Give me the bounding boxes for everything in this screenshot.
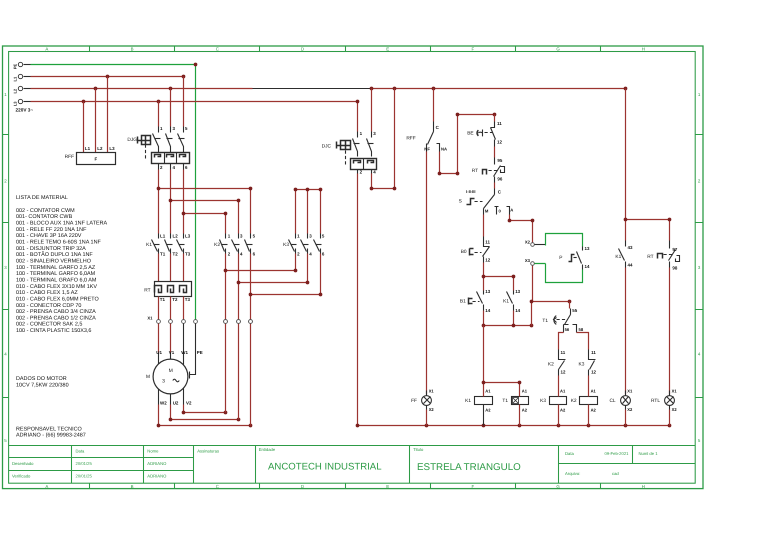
svg-text:001 - RELE FF 220 1NA 1NF: 001 - RELE FF 220 1NA 1NF [16,227,87,233]
svg-text:001 - BOTÃO DUPLO 1NA 1NF: 001 - BOTÃO DUPLO 1NA 1NF [16,251,93,258]
pushbutton B0 [470,237,491,263]
wire delta link V2-K2.2 [184,412,226,414]
svg-text:Nome: Nome [147,448,159,453]
svg-text:B: B [131,484,134,489]
svg-text:X1: X1 [672,389,678,394]
contact K1 43-44 [619,241,633,268]
wire K1 feed pole3 [183,170,185,234]
wire motor lead U2 [170,394,172,405]
svg-text:001- CONTATOR CWB: 001- CONTATOR CWB [16,214,73,220]
svg-text:K2: K2 [214,242,220,248]
coil K1 [465,389,492,426]
svg-text:ADRIANO: ADRIANO [147,461,167,466]
svg-text:B1: B1 [460,299,466,305]
svg-text:ESTRELA TRIANGULO: ESTRELA TRIANGULO [417,462,521,473]
title block [9,446,696,484]
node bottom rail nodes [356,424,672,428]
wire RT-X1 b [170,297,172,320]
node star link nodes [224,269,323,297]
wire K1-RT b [170,254,172,282]
terminal circles on K2 drops [224,320,253,324]
svg-text:RT: RT [472,168,478,174]
wire DJC pole2 down [357,174,359,426]
svg-text:X1: X1 [147,315,153,320]
svg-text:X2: X2 [672,407,678,412]
node coil feed nodes [482,381,522,385]
svg-text:43: 43 [628,245,633,250]
svg-text:G: G [556,46,560,51]
svg-text:F: F [95,156,98,161]
svg-text:ADRIANO: ADRIANO [147,473,167,478]
svg-text:002 - CONECTOR SAK 2,5: 002 - CONECTOR SAK 2,5 [16,322,82,328]
svg-text:C: C [216,46,219,51]
svg-text:20/01/25: 20/01/25 [76,473,93,478]
svg-text:B: B [131,46,134,51]
svg-text:P: P [559,255,562,261]
wire K2 feed c [184,214,226,234]
svg-text:A1: A1 [522,389,528,394]
svg-text:L2: L2 [97,146,103,151]
wire B1/K1 output bus [484,311,532,326]
svg-text:M: M [485,208,489,213]
svg-text:cad: cad [612,471,619,476]
svg-text:T3: T3 [185,297,191,302]
wire motor leads U1 V1 red part [159,324,171,353]
svg-text:001 - BLOCO AUX 1NA 1NF LATERA: 001 - BLOCO AUX 1NA 1NF LATERA [16,220,108,226]
svg-text:V2: V2 [186,401,192,406]
svg-text:L1: L1 [85,146,91,151]
timer contact T1 55-56-58 [554,302,584,333]
wire K3 star bar [296,190,321,234]
svg-text:K2: K2 [548,361,554,367]
wire T1-58 chain [577,333,589,350]
wire K1-RT a [158,254,160,282]
svg-text:010 - CABO FLEX 1,5 AZ: 010 - CABO FLEX 1,5 AZ [16,290,78,296]
svg-text:K3: K3 [540,398,546,404]
svg-text:E: E [386,46,389,51]
contact K1 13-14 [507,289,521,313]
lamp CL [609,389,633,426]
svg-text:Data: Data [76,448,86,453]
svg-text:CL: CL [609,398,615,404]
wire star link b [239,254,308,283]
svg-text:D: D [301,484,304,489]
svg-text:ANCOTECH INDUSTRIAL: ANCOTECH INDUSTRIAL [268,462,382,473]
svg-text:010 - CABO FLEX 3X10 MM 1KV: 010 - CABO FLEX 3X10 MM 1KV [16,284,97,290]
svg-text:ADRIANO - (66) 99983-2487: ADRIANO - (66) 99983-2487 [16,433,86,439]
svg-text:T1: T1 [542,318,548,324]
svg-text:K1: K1 [503,299,509,305]
pressure switch P [569,246,590,270]
svg-text:T3: T3 [185,251,191,256]
wire motor lead W2 [158,389,160,405]
wire delta link W2-K2.6 [159,425,251,427]
svg-text:Data: Data [565,451,575,456]
wire K3 coil feed [558,376,560,391]
drawing frame [3,46,704,489]
svg-text:X2: X2 [525,240,531,245]
svg-text:L1: L1 [160,234,166,239]
svg-text:D: D [301,46,304,51]
svg-text:FF: FF [411,398,417,404]
wire delta link U2-K2.4 [171,419,239,421]
svg-text:010 - CABO FLEX 6,0MM PRETO: 010 - CABO FLEX 6,0MM PRETO [16,296,99,302]
svg-text:11: 11 [497,121,502,126]
wire B0 to B1 / K1 branch [484,263,514,291]
motor M [153,350,203,406]
contactor K3 poles [283,234,325,257]
svg-text:B0: B0 [461,249,467,255]
node L2 taps [94,87,628,91]
pushbutton B1 [469,289,491,313]
svg-text:001 - DISJUNTOR TRIP 32A: 001 - DISJUNTOR TRIP 32A [16,246,86,252]
svg-text:A2: A2 [485,408,491,413]
svg-text:12: 12 [485,257,490,262]
svg-text:55: 55 [572,308,577,313]
circuit breaker DJC [337,89,377,175]
svg-text:12: 12 [497,139,502,144]
svg-text:X2: X2 [429,407,435,412]
wire L2 rail red left [31,88,253,90]
svg-text:DJG: DJG [127,137,137,143]
svg-text:F: F [472,484,475,489]
svg-text:T2: T2 [172,297,178,302]
svg-text:13: 13 [515,289,520,294]
svg-text:L2: L2 [12,88,17,93]
lamp RTL [651,389,677,426]
relay contact RFF [424,89,447,152]
svg-text:L1: L1 [12,76,17,81]
wire K1 feed pole2 [170,170,172,234]
svg-text:98: 98 [672,266,677,271]
wire L2 rail black middle [253,88,371,90]
svg-text:002 - CONTATOR CWM: 002 - CONTATOR CWM [16,208,75,214]
svg-text:14: 14 [485,308,490,313]
svg-text:100 - TERMINAL GARFO 2,5 AZ: 100 - TERMINAL GARFO 2,5 AZ [16,265,96,271]
lamp FF [411,389,434,426]
wire RTL branch [626,220,670,241]
contact K3 11-12 [589,350,597,376]
svg-text:A1: A1 [485,389,491,394]
svg-text:12: 12 [561,370,566,375]
svg-text:BE: BE [467,131,473,137]
svg-text:002 - SINALEIRO VERMELHO: 002 - SINALEIRO VERMELHO [16,258,91,264]
overload relay RT [155,282,192,303]
svg-text:100 - TERMINAL GRAFO 6,0 AM: 100 - TERMINAL GRAFO 6,0 AM [16,277,97,283]
svg-text:002 - PRENSA CABO 3/4 CINZA: 002 - PRENSA CABO 3/4 CINZA [16,309,96,315]
node L3 taps [82,100,360,104]
circuit breaker DJG [138,77,190,170]
svg-text:X2: X2 [627,407,633,412]
wire K2 pole4 down [238,254,240,420]
wire RT-X1 c [183,297,185,320]
svg-text:K1: K1 [146,242,152,248]
svg-text:K3: K3 [579,361,585,367]
wire L1 rail [31,76,184,78]
wire X2 stub [535,244,546,246]
node delta link nodes [157,411,253,428]
svg-text:RT: RT [647,254,653,260]
node A-output nodes [508,219,535,223]
svg-text:96: 96 [497,177,502,182]
svg-text:W1: W1 [181,350,188,355]
svg-text:PE: PE [12,64,17,70]
contact K2 11-12 [559,350,566,376]
svg-text:K1: K1 [465,398,471,404]
wire star link c [251,254,321,295]
svg-text:W2: W2 [160,401,167,406]
contactor K2 poles [214,234,255,257]
svg-text:A2: A2 [560,408,566,413]
svg-text:11: 11 [591,350,596,355]
wire DJC pole4 link [372,89,395,189]
svg-text:A: A [510,208,513,213]
terminal X3 [525,258,534,265]
svg-text:A2: A2 [522,408,528,413]
wire RFF NA to BE rail [440,115,495,174]
svg-text:C: C [216,484,219,489]
node T1 feed nodes [530,300,572,304]
svg-text:10CV 7,5KW 220/380: 10CV 7,5KW 220/380 [16,383,69,389]
svg-text:220V 3~: 220V 3~ [16,108,34,113]
coil K3 [540,389,566,426]
wire X3 to T1 feed [532,266,570,326]
wire star link a [226,254,296,271]
svg-text:H: H [642,484,645,489]
node PE junction [194,63,198,67]
selector switch S [466,183,513,215]
terminal strip X1 [147,315,252,323]
svg-text:58: 58 [579,327,584,332]
svg-text:X1: X1 [627,389,633,394]
fuse block RFF [77,77,116,165]
node L1 taps [106,75,186,79]
svg-text:Assinaturas: Assinaturas [197,448,219,453]
wire K1-44 to CL [625,268,627,395]
svg-text:K3: K3 [283,242,289,248]
svg-text:DADOS DO MOTOR: DADOS DO MOTOR [16,376,67,382]
contactor K1 poles [146,234,191,257]
wire PE rail [31,65,196,320]
svg-text:H: H [642,46,645,51]
wire K1-RT c [183,254,185,282]
svg-text:V1: V1 [169,350,175,355]
wire CL branch [625,89,627,241]
overload contact RT 95-96 [483,147,505,183]
svg-text:RESPONSAVEL TECNICO: RESPONSAVEL TECNICO [16,426,82,432]
svg-text:100 - CINTA PLASTIC 150X3,6: 100 - CINTA PLASTIC 150X3,6 [16,328,91,334]
svg-text:RT: RT [144,287,150,293]
svg-text:Titulo: Titulo [413,447,424,452]
supply terminals PE L1 L2 L3 [12,62,30,106]
terminal X2 [525,240,534,247]
svg-text:97: 97 [672,247,677,252]
svg-text:X3: X3 [525,258,531,263]
svg-text:11: 11 [485,240,490,245]
svg-text:M: M [169,368,173,374]
wire RT-98 to RTL [669,268,671,395]
svg-text:A: A [45,46,48,51]
wire K2 feed b [171,201,239,234]
wire K2 pole2 down [225,254,227,413]
node DJC output nodes [370,187,397,191]
svg-text:PE: PE [197,350,203,355]
svg-text:14: 14 [585,264,590,269]
svg-text:T1: T1 [502,398,508,404]
svg-text:NA: NA [441,146,447,151]
svg-text:T2: T2 [173,251,179,256]
wire K2 feed a [159,189,251,234]
svg-text:95: 95 [497,158,502,163]
svg-text:001 - RELE TEMO 6-60S 1NA 1NF: 001 - RELE TEMO 6-60S 1NA 1NF [16,239,101,245]
svg-text:A: A [45,484,48,489]
wire RFF NF down to FF lamp [426,152,428,395]
svg-text:L3: L3 [12,101,17,106]
svg-text:14: 14 [515,308,520,313]
svg-text:003 - CONECTOR CDP 70: 003 - CONECTOR CDP 70 [16,303,81,309]
svg-text:Desenhado: Desenhado [12,461,34,466]
wire S A-output to X2 [510,215,533,243]
svg-text:Verificado: Verificado [12,473,31,478]
svg-text:K1: K1 [615,254,621,260]
svg-text:U2: U2 [173,401,179,406]
coil K2 [571,389,598,426]
svg-text:T1: T1 [160,297,166,302]
svg-text:L3: L3 [109,146,115,151]
node bus nodes [482,324,534,328]
wire RT-X1 a [158,297,160,320]
svg-text:09-Feb-2021: 09-Feb-2021 [605,451,630,456]
wire P-X3 green [535,264,583,283]
svg-text:100 - TERMINAL GARFO 6,0AM: 100 - TERMINAL GARFO 6,0AM [16,271,96,277]
svg-text:Entidade: Entidade [259,447,276,452]
node NA-BE nodes [438,113,497,176]
svg-text:L3: L3 [185,234,191,239]
svg-text:F: F [472,46,475,51]
wire X2-P green [546,234,583,247]
svg-text:I-II-III: I-II-III [466,189,475,194]
wire motor leads black parts [159,324,196,375]
svg-text:S: S [459,199,462,205]
wire L3 rail [31,102,358,132]
node right branch nodes [624,218,672,222]
svg-text:M: M [146,374,150,380]
wire K1/T1 coil feed [484,326,520,391]
svg-text:001 - CHAVE 3P 16A 220V: 001 - CHAVE 3P 16A 220V [16,233,82,239]
svg-text:X1: X1 [429,389,435,394]
overload contact RT 97-98 [658,241,680,271]
wire T1-56 chain [559,333,564,350]
motor PE ground mark [188,372,190,379]
svg-text:Arquivo:: Arquivo: [565,471,580,476]
svg-text:Numl de 1: Numl de 1 [639,451,659,456]
parts list text [16,195,108,439]
wire motor lead red tails [159,405,184,426]
svg-text:LISTA DE MATERIAL: LISTA DE MATERIAL [16,195,68,201]
svg-text:002 - PRENSA CABO 1/2 CINZA: 002 - PRENSA CABO 1/2 CINZA [16,315,96,321]
wire K2 coil feed [588,376,590,391]
svg-text:E: E [386,484,389,489]
svg-text:RFF: RFF [406,136,415,142]
svg-text:T1: T1 [160,251,166,256]
svg-text:44: 44 [628,263,633,268]
svg-text:3: 3 [162,379,165,385]
wire bottom rail [358,425,670,427]
svg-text:RFF: RFF [65,154,74,160]
svg-text:DJC: DJC [322,144,332,150]
node K3 star nodes [294,188,323,192]
svg-text:11: 11 [561,350,566,355]
svg-text:56: 56 [565,327,570,332]
svg-text:A2: A2 [591,408,597,413]
svg-text:RTL: RTL [651,398,660,404]
svg-text:NF: NF [424,146,430,151]
wire L2 rail red right / control feed rail [371,88,626,90]
svg-text:G: G [556,484,560,489]
node K2 feed taps [157,187,253,216]
pushbutton BE [477,115,502,147]
svg-text:20/01/25: 20/01/25 [76,461,93,466]
svg-text:K2: K2 [571,398,577,404]
wire S M-output [483,215,485,237]
svg-text:13: 13 [585,246,590,251]
wire K1 feed pole1 [158,170,160,234]
svg-text:U1: U1 [156,350,162,355]
svg-text:13: 13 [485,289,490,294]
svg-text:A1: A1 [591,389,597,394]
svg-text:12: 12 [591,370,596,375]
svg-text:A1: A1 [560,389,566,394]
node B0 branch nodes [482,275,516,279]
svg-text:L2: L2 [173,234,179,239]
wire K2 pole6 down [250,254,252,426]
coil T1 [502,389,528,426]
wire motor lead V2 [183,389,185,405]
